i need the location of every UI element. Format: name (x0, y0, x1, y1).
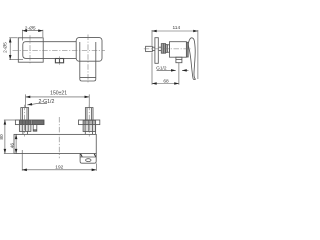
svg-text:G1/2: G1/2 (156, 65, 167, 71)
svg-text:2-G1/2: 2-G1/2 (38, 99, 54, 105)
svg-text:46: 46 (9, 143, 15, 149)
svg-text:80: 80 (0, 134, 5, 140)
svg-text:2-Ø5: 2-Ø5 (25, 25, 36, 31)
svg-text:192: 192 (55, 164, 63, 170)
svg-text:114: 114 (172, 25, 180, 31)
svg-text:150±21: 150±21 (50, 91, 67, 97)
svg-text:2-Ø5: 2-Ø5 (2, 42, 8, 53)
svg-text:68: 68 (163, 78, 169, 84)
